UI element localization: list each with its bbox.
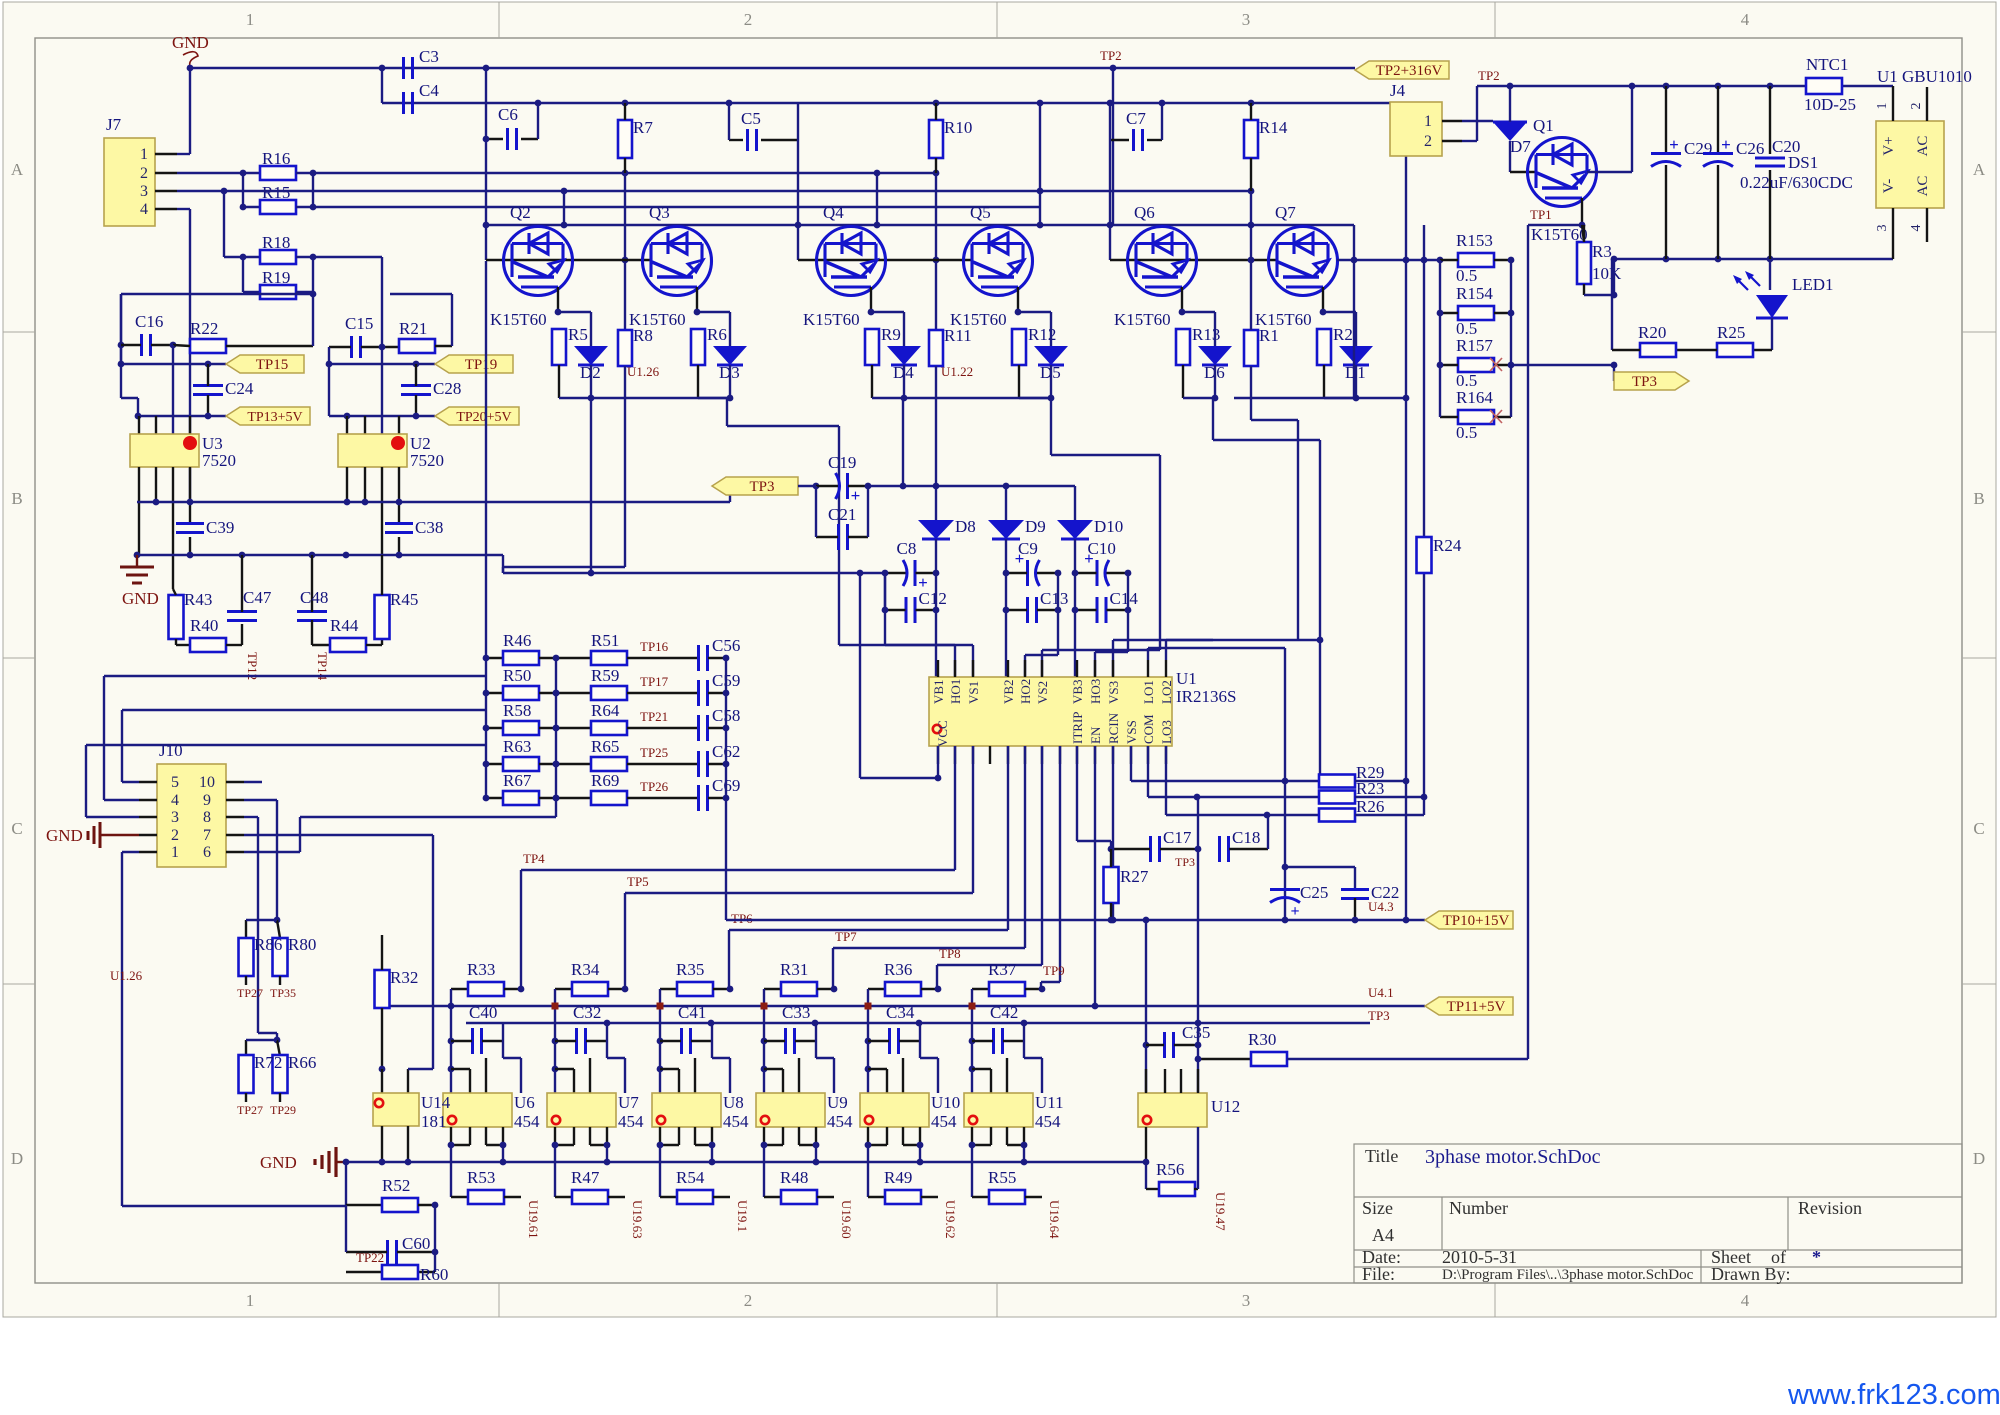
wire U7 out (554, 1145, 556, 1197)
zone separators top (498, 2, 500, 38)
resistor R80 (277, 920, 280, 938)
svg-text:454: 454 (514, 1112, 540, 1131)
wire left rail mid band (485, 261, 487, 798)
svg-text:TP11+5V: TP11+5V (1447, 999, 1506, 1015)
wire LED branch (1769, 259, 1771, 290)
svg-text:181: 181 (421, 1112, 447, 1131)
capacitor C9 (1026, 560, 1029, 586)
wire TP15 row (121, 363, 226, 365)
resistor R52 (382, 1198, 418, 1212)
wire U6 gnd tap (502, 1145, 504, 1162)
wire J10 pin5 up (122, 781, 139, 783)
diode D6 (1198, 346, 1232, 365)
wire cap bus 259 (1612, 258, 1893, 260)
power flag TP13+5V (226, 407, 310, 425)
wire R69 to C69 (627, 797, 697, 799)
transistor Q2 (504, 227, 573, 296)
wire TP10 row (726, 919, 1425, 921)
capacitor C58 (697, 715, 700, 741)
svg-text:R11: R11 (944, 326, 972, 345)
wire R20 left (1612, 349, 1640, 351)
wire U1.22 column down (935, 366, 937, 486)
svg-text:R66: R66 (288, 1053, 316, 1072)
wire VCC feed drop (859, 573, 861, 778)
wire C58 right (708, 727, 726, 729)
wire row1 red junctions (552, 1003, 559, 1010)
resistor R11 (929, 330, 943, 366)
svg-text:R26: R26 (1356, 797, 1384, 816)
svg-text:R153: R153 (1456, 231, 1493, 250)
wire stair pair1 down (726, 398, 728, 426)
connector J7 (104, 138, 155, 226)
svg-text:2: 2 (171, 827, 179, 844)
diode D7 (1493, 121, 1527, 124)
svg-text:R24: R24 (1433, 536, 1462, 555)
svg-text:C12: C12 (919, 589, 947, 608)
wire U6 right rail (502, 1023, 504, 1041)
wire J10 pin3 up (86, 816, 139, 818)
wire cluster rails C9 (1005, 539, 1007, 677)
capacitor C39 (176, 522, 204, 525)
svg-text:Q4: Q4 (823, 203, 844, 222)
wire U6 left rail (450, 989, 452, 1093)
wire bus1 to collector rail (1112, 68, 1114, 225)
wire U10 left rail (867, 989, 869, 1093)
svg-text:TP25: TP25 (640, 745, 668, 760)
svg-text:D9: D9 (1025, 517, 1046, 536)
capacitor C15 (350, 336, 353, 358)
svg-text:TP29: TP29 (270, 1103, 296, 1117)
capacitor C13 (1026, 597, 1029, 623)
svg-text:U19.64: U19.64 (1047, 1200, 1062, 1239)
svg-text:C47: C47 (243, 588, 272, 607)
wire TP6 route (1007, 746, 1009, 930)
svg-text:VCC: VCC (935, 720, 950, 747)
IC U10 (860, 1093, 929, 1127)
wire gate drop Q2 (485, 68, 487, 260)
svg-text:Q1: Q1 (1533, 116, 1554, 135)
svg-text:C16: C16 (135, 312, 163, 331)
resistor R25 (1717, 343, 1753, 357)
svg-text:TP8: TP8 (939, 946, 961, 961)
wire LO3 route (1165, 746, 1167, 815)
svg-text:C48: C48 (300, 588, 328, 607)
svg-text:R164: R164 (1456, 388, 1493, 407)
pin ITRIP (1076, 746, 1078, 764)
resistor R27 (1104, 867, 1119, 903)
svg-text:7520: 7520 (202, 451, 236, 470)
svg-text:1: 1 (171, 844, 179, 861)
svg-text:TP13+5V: TP13+5V (247, 410, 302, 425)
resistor R153 (1458, 253, 1494, 267)
pin RCIN (1112, 746, 1114, 764)
wire U8 bottom pins (659, 1127, 661, 1145)
wire aux rail 1128 down (1127, 610, 1129, 652)
capacitor C6 (506, 128, 509, 150)
bridge pin 3 (1892, 208, 1894, 259)
svg-text:3: 3 (1875, 225, 1890, 232)
svg-text:TP27: TP27 (237, 986, 263, 1000)
resistor NTC1 (1806, 78, 1842, 94)
resistor R35 (660, 988, 677, 990)
resistor R46 (486, 657, 503, 659)
wire R46 to R51 (539, 657, 591, 659)
svg-text:C21: C21 (828, 505, 856, 524)
wire phase pair 1 (591, 397, 727, 399)
IC U2 (338, 434, 407, 467)
wire pin3 to R18 R19 (223, 191, 225, 257)
resistor R6 (691, 329, 705, 365)
wire phase output row (1337, 259, 1440, 261)
wire U3 pins bottom (138, 467, 140, 555)
svg-text:R18: R18 (262, 233, 290, 252)
wire U7 bottom pins (554, 1127, 556, 1145)
resistor R47 (555, 1196, 572, 1198)
wire feeder 710 (122, 709, 486, 711)
wire D6 column down (1212, 398, 1214, 440)
wire R65 to C62 (627, 763, 697, 765)
svg-text:4: 4 (171, 792, 179, 809)
wire cluster rails C8 (935, 539, 937, 677)
wire U8 right rail (711, 1023, 713, 1041)
wire row2 TP3 net (466, 1022, 1370, 1024)
svg-text:C32: C32 (573, 1003, 601, 1022)
capacitor C22 (1341, 888, 1369, 891)
wire D4 column down (902, 398, 904, 486)
capacitor C29 (1651, 152, 1681, 155)
wire J10 pin10 (244, 781, 262, 783)
resistor R44 (330, 638, 366, 652)
wire U9 bottom pins (763, 1127, 765, 1145)
wire U1.26 vertical R8 column (624, 173, 626, 330)
resistor R60 (382, 1265, 418, 1279)
wire Q2 emitter (557, 287, 559, 312)
svg-text:U19.60: U19.60 (839, 1200, 854, 1239)
resistor R8 (618, 330, 632, 366)
wire U11 gnd tap (1023, 1145, 1025, 1162)
svg-text:R54: R54 (676, 1168, 705, 1187)
svg-text:V-: V- (1881, 179, 1897, 193)
svg-text:C: C (1973, 819, 1984, 838)
svg-text:AC: AC (1915, 136, 1931, 157)
capacitor C69 (697, 785, 700, 811)
wire row1 +5V rail (137, 501, 730, 503)
wire Q2 lower node (558, 365, 560, 398)
svg-text:U19.47: U19.47 (1213, 1192, 1228, 1231)
wire Q6 lower node (1182, 365, 1184, 398)
wire U9 out (763, 1145, 765, 1197)
svg-text:C3: C3 (419, 47, 439, 66)
svg-text:U11: U11 (1035, 1093, 1064, 1112)
svg-text:TP35: TP35 (270, 986, 296, 1000)
capacitor C62 (697, 751, 700, 777)
wire rail feed Q4 (876, 173, 878, 225)
wire R51 to C56 (627, 657, 697, 659)
transistor Q1 (1528, 138, 1597, 207)
wire RCIN route (1112, 746, 1114, 920)
svg-text:Q5: Q5 (970, 203, 991, 222)
wire R22 up link (312, 294, 314, 346)
wire emitter node Q3 (698, 311, 730, 313)
svg-text:TP26: TP26 (640, 779, 669, 794)
capacitor C42 (992, 1028, 995, 1054)
wire bus1 +316V (190, 67, 1355, 69)
resistor R50 (486, 692, 503, 694)
svg-text:454: 454 (931, 1112, 957, 1131)
capacitor C47 (227, 610, 257, 613)
svg-text:TP2: TP2 (1100, 48, 1122, 63)
wire U8 top pins (678, 1069, 680, 1093)
power flag TP10+15V (1425, 911, 1513, 929)
svg-text:10D-25: 10D-25 (1804, 95, 1856, 114)
svg-text:B: B (1973, 489, 1984, 508)
wire D7 cathode to Q1 (1509, 141, 1511, 172)
svg-text:A: A (11, 160, 24, 179)
wire 1198 vertical upper (1197, 797, 1199, 849)
wire R25 R20 (1676, 349, 1717, 351)
svg-text:R32: R32 (390, 968, 418, 987)
svg-text:8: 8 (203, 809, 211, 826)
diode D3 (713, 346, 747, 365)
wire left block1 rail (120, 294, 122, 364)
svg-text:U6: U6 (514, 1093, 535, 1112)
svg-text:1: 1 (246, 1291, 255, 1310)
svg-text:R64: R64 (591, 701, 620, 720)
svg-text:2: 2 (744, 1291, 753, 1310)
connector J10 (157, 764, 226, 867)
svg-text:DS1: DS1 (1788, 153, 1818, 172)
svg-text:R22: R22 (190, 319, 218, 338)
wire gnd row3 (346, 1161, 1146, 1163)
wire TP1 long vertical (1527, 225, 1529, 1059)
svg-text:K15T60: K15T60 (490, 310, 547, 329)
capacitor C18 (1218, 836, 1221, 862)
wire R1 column down (1250, 366, 1252, 420)
transistor Q6 (1128, 227, 1197, 296)
svg-text:R67: R67 (503, 771, 532, 790)
wire R43 bottom (175, 639, 177, 645)
resistor R7 (618, 120, 632, 158)
svg-text:R86: R86 (254, 935, 282, 954)
wire Q5 lower node (1018, 365, 1020, 398)
svg-text:R30: R30 (1248, 1030, 1276, 1049)
svg-text:3phase motor.SchDoc: 3phase motor.SchDoc (1425, 1146, 1601, 1168)
svg-text:TP2: TP2 (1478, 68, 1500, 83)
wire R18 R19 outputs (296, 256, 382, 258)
resistor R69 (591, 791, 627, 805)
svg-text:R63: R63 (503, 737, 531, 756)
svg-text:R2: R2 (1333, 325, 1353, 344)
svg-text:R27: R27 (1120, 867, 1149, 886)
resistor R9 (865, 329, 879, 365)
wire J10 pin7 stub (244, 834, 433, 836)
svg-text:LED1: LED1 (1792, 275, 1834, 294)
svg-text:Size: Size (1362, 1198, 1393, 1218)
diode D10 (1057, 520, 1093, 539)
wire R23 right (1355, 796, 1424, 798)
svg-text:C18: C18 (1232, 828, 1260, 847)
svg-text:R56: R56 (1156, 1160, 1184, 1179)
wire U6 top pins (469, 1069, 471, 1093)
svg-text:HO2: HO2 (1018, 679, 1033, 704)
svg-text:U7: U7 (618, 1093, 639, 1112)
wire gate row Q4 Q5 (798, 259, 972, 261)
resistor R66 (277, 1040, 280, 1056)
svg-text:454: 454 (1035, 1112, 1061, 1131)
svg-text:R49: R49 (884, 1168, 912, 1187)
svg-text:454: 454 (827, 1112, 853, 1131)
capacitor C32 (575, 1028, 578, 1054)
wire block1 jog (120, 364, 122, 398)
svg-text:R40: R40 (190, 616, 218, 635)
svg-text:9: 9 (203, 792, 211, 809)
capacitor C4 (402, 92, 405, 114)
resistor R43 (169, 595, 184, 639)
svg-text:J4: J4 (1390, 81, 1406, 100)
wire R52 right (418, 1204, 435, 1206)
svg-text:R35: R35 (676, 960, 704, 979)
wire J7 pin2 node (177, 172, 260, 174)
pin LO2 (1165, 660, 1167, 677)
wire C69 right (708, 797, 726, 799)
capacitor C40 (471, 1028, 474, 1054)
resistor R72 (245, 1040, 247, 1056)
wire TP2 bus right (1477, 85, 1806, 87)
wire TP20 row (347, 415, 435, 417)
svg-text:10K: 10K (1592, 264, 1622, 283)
svg-text:www.frk123.com: www.frk123.com (1787, 1379, 2000, 1411)
svg-text:+: + (851, 486, 861, 505)
svg-text:GND: GND (172, 33, 209, 52)
wire gate row Q2 Q3 (486, 259, 651, 261)
svg-text:R58: R58 (503, 701, 531, 720)
power flag TP15 (226, 355, 304, 373)
resistor R26 (1319, 809, 1355, 822)
resistor R54 (660, 1196, 677, 1198)
svg-text:U4.1: U4.1 (1368, 985, 1394, 1000)
svg-text:1: 1 (1424, 113, 1432, 130)
svg-text:3: 3 (171, 809, 179, 826)
svg-text:R43: R43 (184, 590, 212, 609)
wire C62 right (708, 763, 726, 765)
wire TP19 row (329, 363, 435, 365)
svg-text:D: D (1973, 1149, 1985, 1168)
resistor R29 (1319, 775, 1355, 788)
svg-text:2010-5-31: 2010-5-31 (1442, 1247, 1517, 1267)
svg-text:D7: D7 (1510, 137, 1531, 156)
svg-text:454: 454 (723, 1112, 749, 1131)
wire D10 anode drop (1074, 486, 1076, 520)
svg-text:U1.22: U1.22 (941, 364, 973, 379)
svg-text:1: 1 (246, 10, 255, 29)
svg-text:VS2: VS2 (1035, 681, 1050, 704)
svg-text:TP17: TP17 (640, 674, 669, 689)
bridge pin 1 (1892, 86, 1894, 121)
wire vertical 1406 upper (1405, 103, 1407, 260)
wire TP11 row (1093, 1005, 1425, 1007)
capacitor C56 (697, 645, 700, 671)
svg-text:C8: C8 (897, 539, 917, 558)
svg-text:D: D (11, 1149, 23, 1168)
svg-text:TP5: TP5 (627, 874, 649, 889)
svg-text:VS3: VS3 (1106, 681, 1121, 704)
wire J7 pin3 rowB (177, 190, 1251, 192)
svg-text:Number: Number (1449, 1198, 1508, 1218)
wire U10 bottom pins (867, 1127, 869, 1145)
svg-text:HO3: HO3 (1088, 679, 1103, 704)
wire vertical 1424 upper (1423, 225, 1425, 260)
svg-text:R7: R7 (633, 118, 653, 137)
wire mid rail (555, 658, 557, 817)
wire U3 pins top (138, 416, 140, 434)
svg-text:U14: U14 (421, 1093, 451, 1112)
svg-text:U12: U12 (1211, 1097, 1240, 1116)
svg-text:R47: R47 (571, 1168, 600, 1187)
resistor R37 (972, 988, 989, 990)
svg-text:Q6: Q6 (1134, 203, 1155, 222)
svg-text:R15: R15 (262, 183, 290, 202)
wire J4 pin1 to D7 (1462, 120, 1493, 122)
wire emitter node Q5 (1019, 311, 1051, 313)
wire U9 left rail (763, 989, 765, 1093)
wire R72 top join (246, 1039, 277, 1041)
svg-text:IR2136S: IR2136S (1176, 687, 1236, 706)
svg-text:TP16: TP16 (640, 639, 669, 654)
svg-text:R14: R14 (1259, 118, 1288, 137)
resistor R2 (1317, 329, 1331, 365)
diode D4 (887, 346, 921, 365)
svg-text:V+: V+ (1881, 136, 1897, 155)
svg-text:C60: C60 (402, 1234, 430, 1253)
svg-text:4: 4 (1909, 225, 1924, 232)
svg-text:7: 7 (203, 827, 211, 844)
wire rowA (313, 172, 936, 174)
wire U7 gnd tap (606, 1145, 608, 1162)
svg-text:R65: R65 (591, 737, 619, 756)
wire Q5 emitter (1017, 287, 1019, 312)
svg-text:6: 6 (203, 844, 211, 861)
wire LO1 top route (1147, 648, 1149, 660)
svg-text:TP20+5V: TP20+5V (456, 410, 511, 425)
wire U11 right rail (1023, 1023, 1025, 1041)
wire U8 left rail (659, 989, 661, 1093)
resistor R154 (1458, 306, 1494, 320)
wire C29 column (1665, 86, 1667, 152)
wire U7 right rail (606, 1023, 608, 1041)
wire VCC row 573 (503, 572, 885, 574)
wire R58 to R64 (539, 727, 591, 729)
wire U9 gnd tap (815, 1145, 817, 1162)
svg-text:R50: R50 (503, 666, 531, 685)
capacitor C17 (1149, 836, 1152, 862)
wire U8 gnd tap (711, 1145, 713, 1162)
wire EN route (1094, 746, 1096, 1006)
resistor R58 (486, 727, 503, 729)
svg-text:0.5: 0.5 (1456, 266, 1477, 285)
capacitor C38 (385, 522, 413, 525)
svg-text:R53: R53 (467, 1168, 495, 1187)
resistor R12 (1012, 329, 1026, 365)
wire TP4 route (954, 746, 956, 870)
svg-text:+: + (1669, 135, 1679, 154)
wire rail feed Q2 (563, 191, 565, 225)
svg-text:C38: C38 (415, 518, 443, 537)
svg-text:R31: R31 (780, 960, 808, 979)
svg-text:C25: C25 (1300, 883, 1328, 902)
svg-text:C19: C19 (828, 453, 856, 472)
svg-text:TP1: TP1 (1530, 207, 1552, 222)
wire U10 out (867, 1145, 869, 1197)
